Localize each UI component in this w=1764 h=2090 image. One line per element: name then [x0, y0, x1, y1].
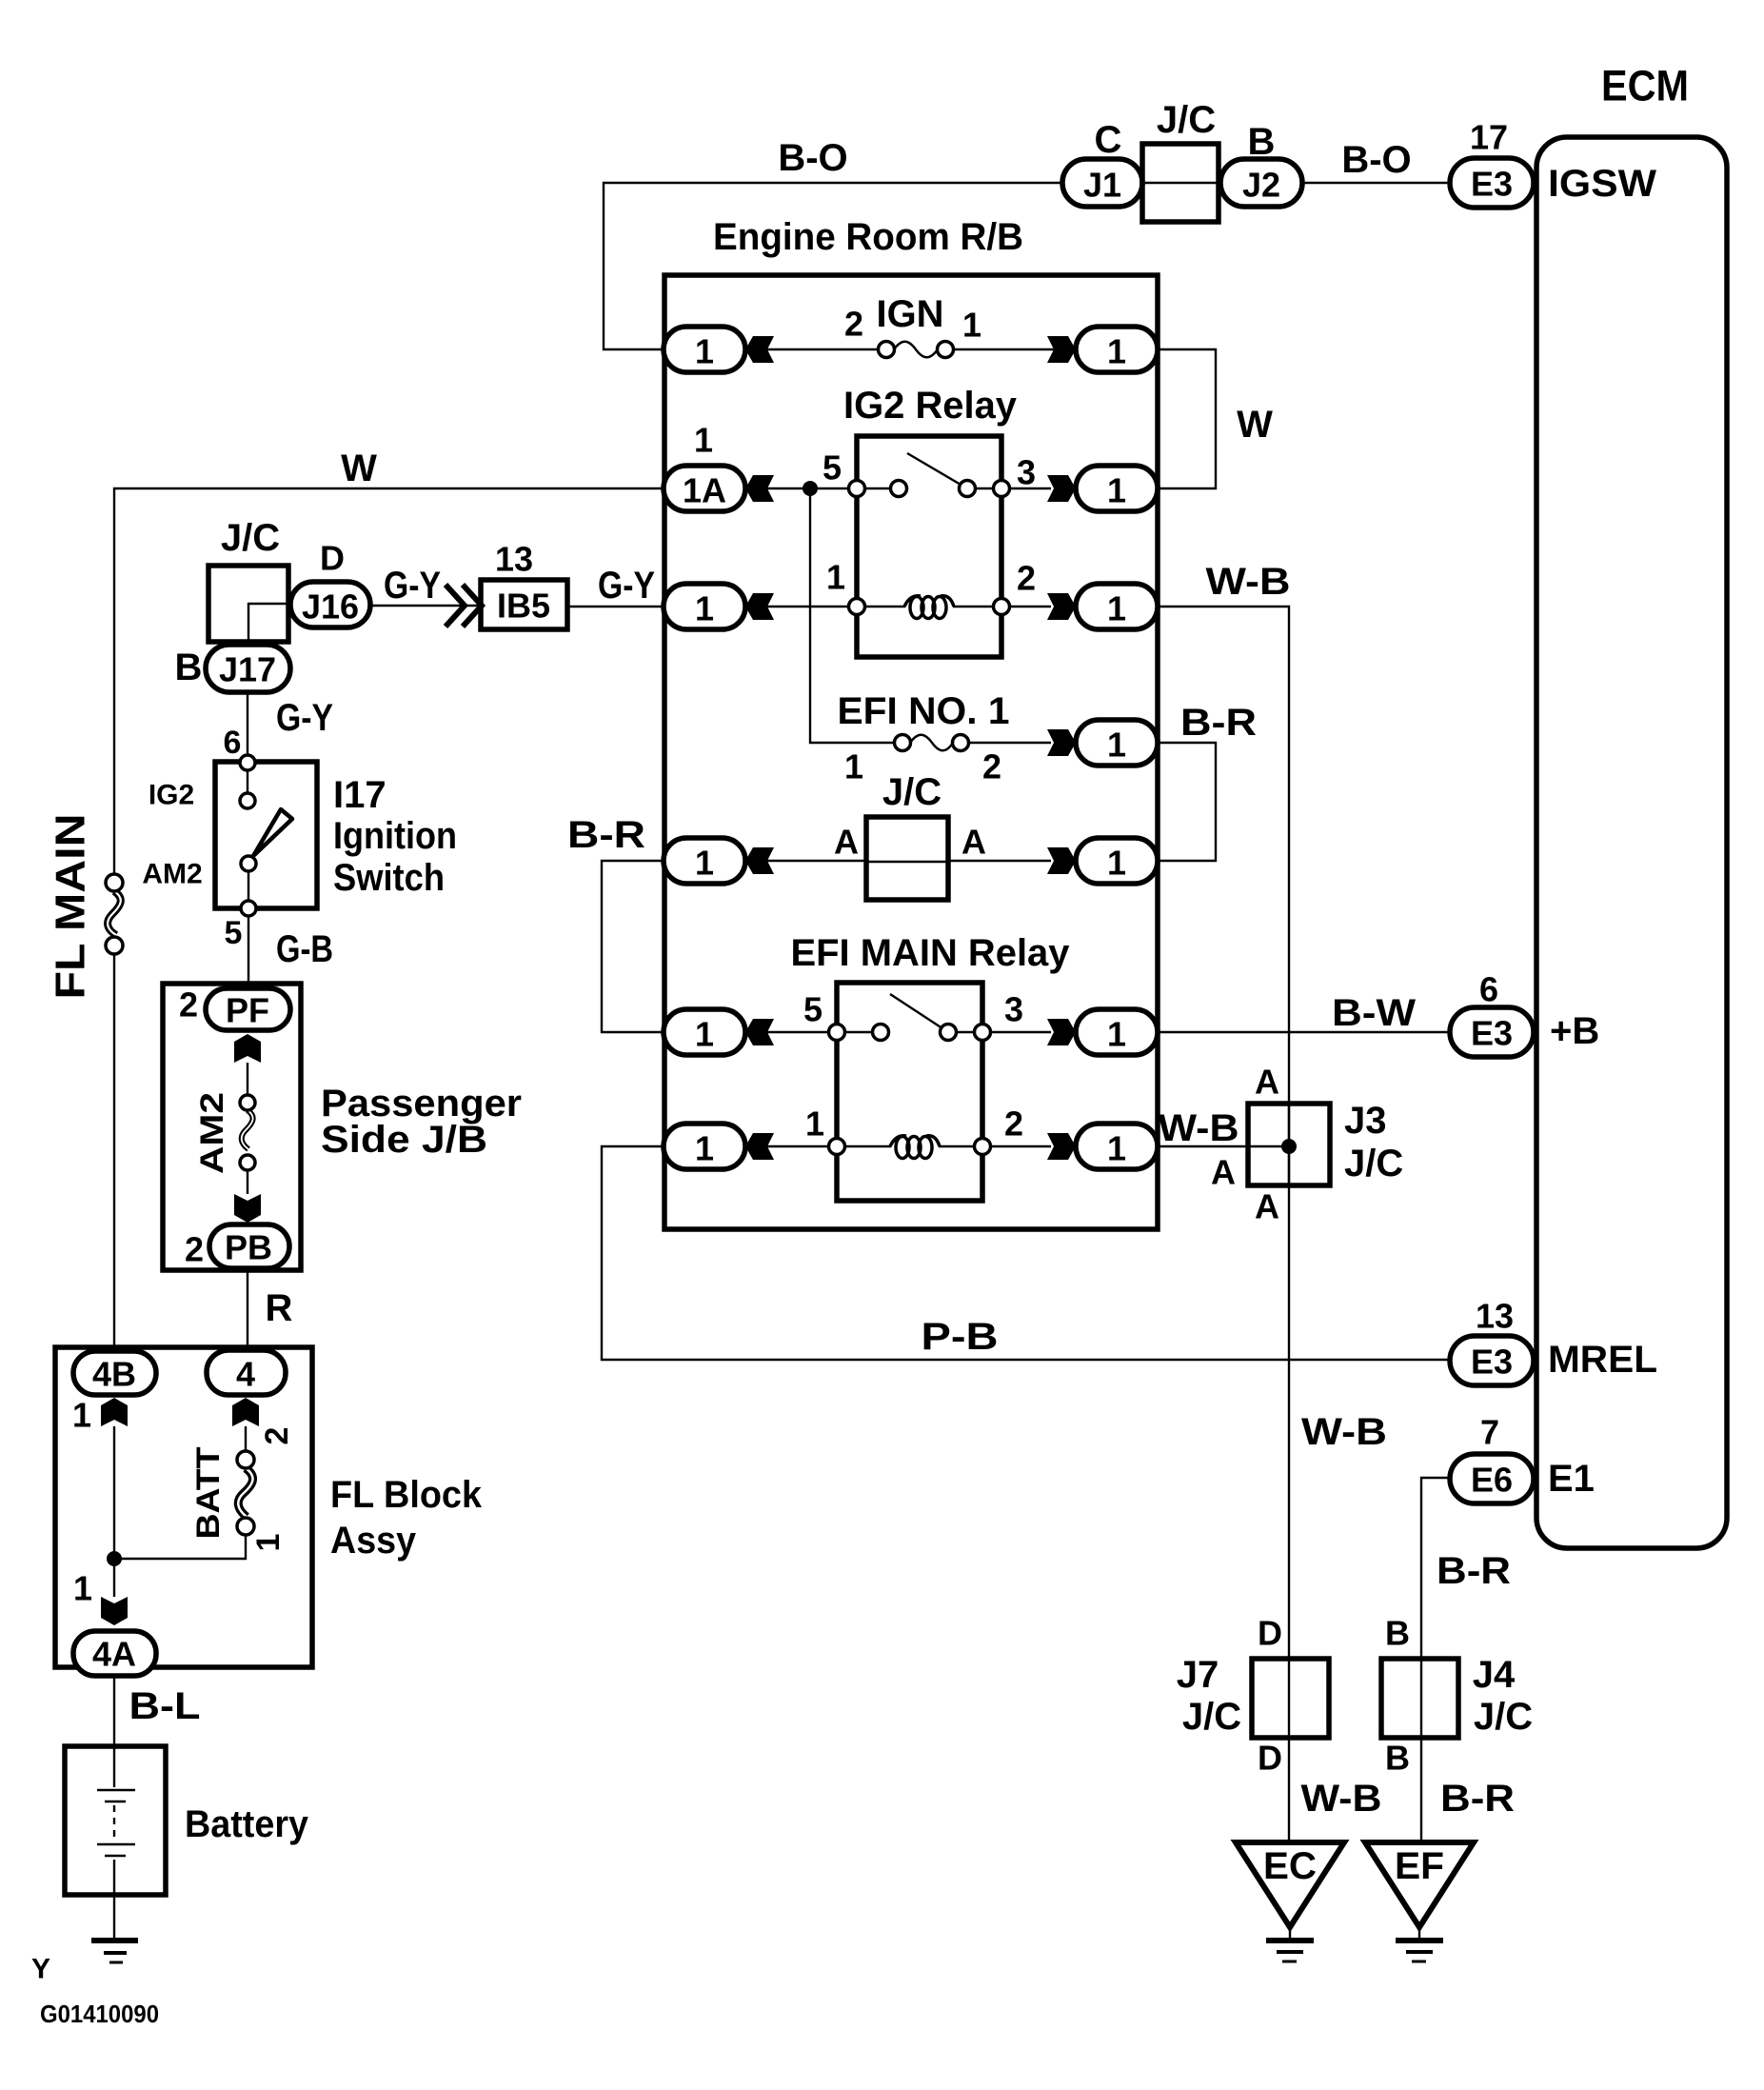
connector 1 (row3 left) [664, 584, 745, 629]
wire G-B [248, 916, 249, 988]
svg-text:BATT: BATT [190, 1446, 227, 1539]
svg-text:B: B [175, 647, 203, 688]
terminal E3 (+B) [1450, 1007, 1534, 1057]
connector 1 (row6 right) [1076, 1009, 1158, 1055]
pin 5 circle [241, 901, 256, 916]
arrow left row7 [745, 1133, 774, 1160]
svg-text:Assy: Assy [330, 1520, 417, 1562]
svg-text:A: A [1211, 1153, 1236, 1192]
arrow right row7 [1047, 1133, 1076, 1160]
svg-text:B-R: B-R [1180, 702, 1257, 744]
svg-text:B-R: B-R [1440, 1778, 1515, 1820]
arrow right row6 [1047, 1019, 1076, 1045]
svg-text:R: R [266, 1287, 293, 1329]
arrow left row6 [745, 1019, 774, 1045]
svg-text:J/C: J/C [882, 771, 941, 813]
arrow left row1 [745, 336, 774, 363]
connector 1 (row3 right) [1076, 584, 1158, 629]
wire G-Y J16 to IB5 [370, 605, 481, 607]
svg-text:1: 1 [250, 1534, 287, 1552]
svg-text:Y: Y [31, 1954, 50, 1985]
relay contact pins row2 [849, 453, 1010, 497]
connector 4 [207, 1350, 286, 1395]
svg-text:Engine Room R/B: Engine Room R/B [713, 216, 1023, 258]
ignition switch box I17 [215, 762, 317, 908]
svg-text:3: 3 [1004, 990, 1023, 1029]
svg-text:2: 2 [1004, 1105, 1023, 1144]
wire AM2 to pin5 [248, 871, 249, 901]
svg-text:B-L: B-L [129, 1685, 201, 1727]
wire row5 [745, 860, 1051, 862]
svg-text:A: A [1255, 1063, 1279, 1102]
svg-text:EF: EF [1395, 1845, 1444, 1887]
ground EC triangle [1236, 1842, 1344, 1927]
wire R [247, 1268, 248, 1350]
svg-text:D: D [320, 539, 345, 578]
connector 1 (row6 left) [664, 1009, 745, 1055]
wire row2 [745, 488, 1051, 489]
junction connector J/C (J16/J17) [208, 566, 288, 642]
connector 1A [664, 466, 745, 511]
arrow up 4B [101, 1398, 128, 1426]
arrow left row3 [745, 593, 774, 620]
arrow right row4 [1047, 729, 1076, 756]
connector 1 (row1 right) [1076, 327, 1158, 372]
arrow left row2 [745, 475, 774, 502]
svg-text:G01410090: G01410090 [40, 2000, 159, 2028]
wire W-B down to J3/EC [1158, 607, 1289, 1842]
svg-text:A: A [961, 823, 986, 862]
svg-text:1: 1 [1107, 589, 1126, 628]
svg-text:2: 2 [844, 305, 863, 344]
svg-text:4: 4 [236, 1355, 255, 1394]
svg-text:5: 5 [803, 990, 823, 1029]
wire row7 [745, 1145, 1051, 1147]
svg-text:G-Y: G-Y [276, 697, 333, 739]
svg-text:4B: 4B [92, 1355, 136, 1394]
svg-text:IGSW: IGSW [1548, 163, 1656, 205]
svg-text:Side J/B: Side J/B [321, 1119, 487, 1161]
ground EF triangle [1365, 1842, 1474, 1927]
relay coil row7 [829, 1136, 991, 1159]
svg-text:B-R: B-R [1437, 1550, 1511, 1592]
svg-text:1: 1 [1107, 1015, 1126, 1054]
arrow right row3 [1047, 593, 1076, 620]
svg-text:13: 13 [495, 540, 533, 579]
svg-text:4A: 4A [92, 1635, 136, 1674]
svg-text:Switch: Switch [333, 857, 445, 899]
pin IG2 circle [240, 793, 255, 808]
svg-text:1: 1 [695, 589, 714, 628]
svg-text:1: 1 [1107, 1129, 1126, 1168]
svg-text:B-W: B-W [1332, 992, 1416, 1034]
svg-text:IG2 Relay: IG2 Relay [843, 385, 1018, 427]
svg-text:E6: E6 [1471, 1461, 1513, 1500]
junction dot row2 [803, 481, 818, 496]
wire B-O right [1302, 182, 1450, 184]
svg-text:1: 1 [1107, 471, 1126, 510]
svg-text:+B: +B [1550, 1010, 1599, 1052]
terminal E6 (E1) [1450, 1454, 1534, 1503]
arrow down PB [234, 1194, 261, 1223]
svg-text:W-B: W-B [1301, 1778, 1382, 1820]
fuse EFI NO.1 [895, 735, 969, 751]
svg-text:1: 1 [695, 332, 714, 371]
svg-text:W: W [1237, 404, 1273, 446]
junction connector J/C (A-A) [866, 817, 948, 900]
svg-text:B: B [1385, 1739, 1410, 1778]
svg-text:J3: J3 [1344, 1100, 1387, 1142]
connector 1 (row5 left) [664, 838, 745, 884]
EFI MAIN relay box [837, 983, 982, 1201]
wire B-W to ECM [1158, 1031, 1450, 1033]
wire 4 to BATT [245, 1426, 247, 1451]
junction connector J7 [1252, 1659, 1329, 1738]
connector J1 [1062, 159, 1142, 207]
wire G-Y into box [567, 606, 664, 607]
fuse AM2 [240, 1095, 255, 1170]
svg-text:J7: J7 [1177, 1654, 1219, 1696]
arrow up 4 [232, 1398, 259, 1426]
svg-text:IGN: IGN [877, 293, 944, 335]
svg-text:G-B: G-B [276, 928, 333, 970]
svg-text:EFI NO. 1: EFI NO. 1 [838, 690, 1010, 732]
svg-text:2: 2 [982, 747, 1001, 786]
svg-text:7: 7 [1480, 1413, 1499, 1452]
wire to AM2 fuse [247, 1063, 248, 1095]
svg-text:J/C: J/C [1344, 1143, 1403, 1184]
svg-text:E1: E1 [1548, 1458, 1595, 1500]
svg-text:D: D [1258, 1614, 1282, 1653]
relay contact pins row6 [829, 994, 991, 1041]
svg-text:5: 5 [225, 915, 243, 951]
svg-text:W-B: W-B [1301, 1411, 1387, 1453]
wire G-Y J17 down [247, 692, 248, 755]
pin AM2 circle [241, 856, 256, 871]
wire B-R link row4-row5 [1158, 743, 1216, 861]
splice arrows >> [446, 585, 482, 627]
svg-text:B-R: B-R [567, 814, 645, 856]
wire BATT to junction [114, 1535, 246, 1559]
svg-text:E3: E3 [1471, 165, 1513, 204]
arrow right row1 [1047, 336, 1076, 363]
svg-text:C: C [1095, 119, 1122, 161]
connector 1 (row5 right) [1076, 838, 1158, 884]
fuse IGN [879, 342, 954, 358]
svg-text:3: 3 [1017, 453, 1036, 492]
svg-text:1: 1 [805, 1105, 824, 1144]
svg-text:J17: J17 [219, 650, 276, 689]
svg-text:B: B [1385, 1614, 1410, 1653]
svg-text:I17: I17 [333, 774, 386, 816]
IG2 relay box [857, 436, 1001, 657]
wire E1 to J4/EF [1421, 1478, 1450, 1842]
svg-text:E3: E3 [1471, 1343, 1513, 1382]
svg-text:1: 1 [73, 1569, 92, 1608]
connector 4B [73, 1351, 156, 1395]
terminal E3 (MREL) [1450, 1336, 1534, 1385]
terminal E3 (IGSW) [1450, 158, 1534, 208]
svg-text:Battery: Battery [185, 1803, 309, 1845]
svg-text:EFI MAIN Relay: EFI MAIN Relay [791, 932, 1071, 974]
arrow left row5 [745, 847, 774, 874]
wire W [114, 488, 664, 1351]
arrow down 4A [101, 1597, 128, 1625]
junction connector J/C (J1/J2) [1142, 144, 1219, 222]
svg-text:AM2: AM2 [194, 1092, 230, 1174]
svg-text:P-B: P-B [922, 1316, 999, 1358]
connector J17 [206, 645, 290, 692]
svg-text:1: 1 [962, 306, 981, 345]
fuse BATT [237, 1451, 254, 1535]
relay coil row3 [849, 596, 1010, 619]
ECM box [1536, 137, 1727, 1548]
svg-text:FL MAIN: FL MAIN [48, 814, 94, 1000]
svg-text:2: 2 [259, 1427, 295, 1445]
svg-text:J/C: J/C [1474, 1696, 1533, 1738]
svg-text:Ignition: Ignition [333, 815, 457, 857]
ground symbol battery [91, 1895, 138, 1962]
ground symbol EC [1266, 1927, 1314, 1961]
FL Block Assy box [55, 1347, 312, 1667]
svg-text:IG2: IG2 [149, 780, 194, 811]
arrow up PF [234, 1034, 261, 1063]
svg-text:1: 1 [1107, 844, 1126, 883]
junction connector J4 [1381, 1659, 1458, 1738]
wire from dot down to fuse [810, 488, 1051, 743]
svg-text:J/C: J/C [1157, 99, 1216, 141]
svg-text:1: 1 [694, 421, 713, 460]
wire W link row1-row2 [1158, 349, 1216, 488]
wire row3 [745, 606, 1051, 607]
wire 4B down [113, 1426, 115, 1597]
svg-text:1: 1 [826, 558, 845, 597]
switch lever [253, 809, 292, 856]
svg-text:J2: J2 [1242, 166, 1280, 205]
connector 1 (row2 right) [1076, 466, 1158, 511]
connector 1 (row7 left) [664, 1124, 745, 1169]
svg-text:IB5: IB5 [497, 587, 550, 626]
svg-text:AM2: AM2 [142, 859, 202, 890]
connector J16 [290, 582, 370, 627]
svg-text:PF: PF [226, 991, 269, 1030]
connector PB [209, 1224, 289, 1268]
svg-text:1: 1 [72, 1396, 91, 1435]
svg-text:1: 1 [695, 844, 714, 883]
svg-text:W-B: W-B [1159, 1107, 1239, 1149]
connector IB5 [481, 580, 567, 629]
svg-text:E3: E3 [1471, 1014, 1513, 1053]
arrow right row2 [1047, 475, 1076, 502]
svg-text:A: A [834, 823, 859, 862]
svg-text:5: 5 [823, 448, 842, 488]
svg-text:1: 1 [1107, 726, 1126, 765]
svg-text:G-Y: G-Y [598, 565, 655, 607]
svg-text:17: 17 [1470, 118, 1508, 157]
svg-text:J16: J16 [302, 587, 359, 627]
svg-text:FL Block: FL Block [330, 1474, 483, 1516]
connector 4A [73, 1631, 156, 1676]
connector 1 (row7 right) [1076, 1124, 1158, 1169]
junction connector J3 [1248, 1104, 1330, 1185]
svg-text:A: A [1255, 1187, 1279, 1226]
svg-text:ECM: ECM [1601, 62, 1689, 110]
svg-text:1: 1 [1107, 332, 1126, 371]
svg-text:1: 1 [844, 747, 863, 786]
Engine Room R/B box [664, 275, 1158, 1229]
wire row1 [745, 348, 1076, 350]
svg-text:2: 2 [1017, 559, 1036, 598]
svg-text:J/C: J/C [1182, 1696, 1241, 1738]
svg-text:B-O: B-O [778, 137, 847, 179]
svg-text:2: 2 [179, 985, 198, 1025]
wire B-R left loop row5-row6 [602, 861, 664, 1032]
svg-text:G-Y: G-Y [384, 565, 441, 607]
svg-text:EC: EC [1263, 1845, 1317, 1887]
wire row6 [745, 1031, 1051, 1033]
svg-text:J/C: J/C [221, 517, 280, 559]
svg-text:PB: PB [225, 1228, 272, 1267]
wire B-L [113, 1676, 115, 1746]
connector PF [206, 988, 290, 1030]
svg-text:2: 2 [185, 1230, 204, 1269]
ground symbol EF [1396, 1927, 1443, 1961]
battery box [65, 1746, 166, 1895]
junction dot FL block [107, 1551, 122, 1566]
svg-text:6: 6 [1479, 970, 1498, 1009]
battery cell symbol [97, 1746, 135, 1895]
svg-text:1: 1 [695, 1015, 714, 1054]
connector J2 [1220, 159, 1302, 207]
svg-text:B-O: B-O [1341, 139, 1411, 181]
svg-text:D: D [1258, 1739, 1282, 1778]
wire B-O horizontal + drop to row1 [604, 183, 1062, 349]
pin 6 circle [240, 755, 255, 770]
svg-text:J4: J4 [1473, 1654, 1516, 1696]
wire pin6 to IG2 [247, 770, 248, 793]
svg-text:1A: 1A [683, 471, 726, 510]
svg-text:1: 1 [695, 1129, 714, 1168]
svg-text:6: 6 [224, 725, 242, 761]
wire P-B left loop to MREL [602, 1146, 1450, 1360]
svg-text:W: W [341, 448, 377, 489]
wire below AM2 fuse [247, 1170, 248, 1194]
arrow right row5 [1047, 847, 1076, 874]
svg-text:MREL: MREL [1548, 1339, 1657, 1381]
fuse FL MAIN [106, 874, 123, 954]
wire W-B to J3 [1158, 1145, 1289, 1147]
svg-text:W-B: W-B [1206, 561, 1291, 603]
Passenger Side J/B box [163, 984, 301, 1270]
connector 1 (row4 right) [1076, 720, 1158, 766]
svg-text:J1: J1 [1083, 166, 1121, 205]
svg-text:13: 13 [1476, 1297, 1514, 1336]
connector 1 (row1 left) [664, 327, 745, 372]
